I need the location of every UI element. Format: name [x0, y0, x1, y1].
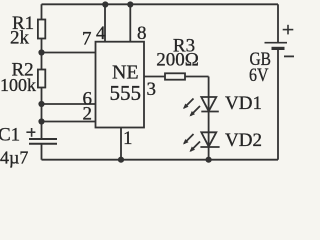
node junction pin7: [38, 49, 44, 55]
resistor R2: [38, 70, 45, 88]
resistor R1: [38, 20, 45, 39]
node junction pin2: [38, 118, 44, 124]
wire right vertical top: [277, 4, 279, 42]
wire bottom rail: [42, 159, 279, 161]
wire left vertical branch: [41, 4, 43, 139]
node junction LED bottom: [206, 157, 212, 163]
capacitor C1 polarity plus: [26, 131, 35, 133]
wire pin 1 stub: [120, 128, 122, 160]
capacitor C1 plates: [29, 138, 57, 140]
svg-text:6V: 6V: [249, 65, 269, 86]
wire pin 3: [144, 76, 209, 78]
svg-text:3: 3: [147, 79, 157, 100]
wire pin 2: [42, 121, 96, 123]
resistor R3: [165, 73, 185, 79]
svg-text:8: 8: [137, 23, 147, 44]
LED VD1: [183, 97, 219, 117]
svg-text:2k: 2k: [10, 28, 30, 49]
node junction pin4: [102, 1, 108, 7]
battery polarity minus: [284, 55, 294, 57]
node junction pin6: [38, 101, 44, 107]
LED VD2: [183, 132, 220, 152]
svg-text:VD2: VD2: [225, 130, 262, 151]
svg-text:2: 2: [83, 104, 93, 125]
svg-text:VD1: VD1: [225, 93, 262, 114]
wire pin 4 stub: [104, 4, 106, 41]
svg-text:C1: C1: [0, 125, 20, 146]
wire pin 6: [42, 103, 96, 105]
wire C1 to bottom rail: [41, 144, 43, 160]
svg-text:1: 1: [123, 128, 133, 149]
svg-text:4: 4: [96, 23, 106, 44]
wire pin 8 stub: [129, 4, 131, 41]
node junction pin1: [118, 157, 124, 163]
battery GB plates: [265, 42, 288, 44]
svg-text:200Ω: 200Ω: [156, 50, 199, 71]
wire LED branch vertical: [208, 77, 210, 160]
node junction pin8: [127, 1, 133, 7]
wire pin 7: [42, 52, 96, 54]
svg-text:100k: 100k: [0, 75, 36, 95]
wire right vertical bottom: [277, 48, 279, 159]
svg-text:555: 555: [110, 81, 142, 105]
op-amp U1 NE555 box: [96, 42, 145, 128]
svg-text:7: 7: [82, 29, 92, 50]
svg-text:4µ7: 4µ7: [0, 148, 28, 168]
battery polarity plus: [283, 29, 294, 31]
wire top rail: [42, 3, 279, 5]
